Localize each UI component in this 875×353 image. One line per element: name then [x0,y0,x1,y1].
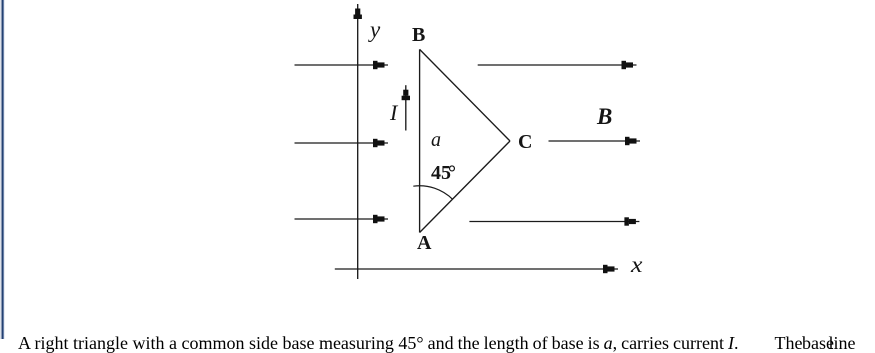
left arrowhead 1 [373,61,378,69]
right field line 3 [469,221,639,223]
y-axis arrowhead [355,9,360,15]
left field line 1 [295,64,389,66]
label A vertex [417,233,431,253]
right field line 2 [549,140,641,142]
left field line 2 [295,142,389,144]
label B field [597,105,612,128]
label a (angle) [431,130,441,150]
bottom text line (cut off) [18,334,855,352]
x-axis shaft [335,268,618,270]
label B vertex [412,25,425,45]
current arrowhead [403,90,408,96]
label C vertex [518,132,532,152]
right arrowhead 1 [622,61,627,69]
triangle side AC [420,141,510,233]
left blue page border [0,0,6,339]
label y [370,18,380,41]
y-axis shaft [357,4,359,279]
left arrowhead 3 [373,215,378,223]
label x [631,253,642,276]
label 45 deg [431,163,456,183]
left field line 3 [295,218,389,220]
right arrowhead 3 [624,217,629,225]
left arrowhead 2 [373,139,378,147]
triangle side AB [419,49,421,232]
label I [390,102,397,124]
right field line 1 [478,64,637,66]
45 degree arc [413,186,452,200]
x-axis arrowhead [603,265,608,273]
current shaft [405,85,407,130]
triangle side BC [420,49,510,141]
right arrowhead 2 [625,137,630,145]
